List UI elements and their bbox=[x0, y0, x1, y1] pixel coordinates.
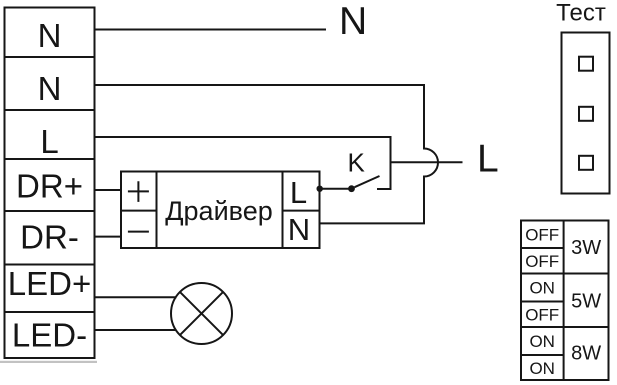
svg-text:Драйвер: Драйвер bbox=[165, 196, 272, 226]
svg-text:ON: ON bbox=[529, 279, 555, 298]
driver plus symbol bbox=[128, 181, 149, 202]
svg-text:8W: 8W bbox=[571, 343, 601, 365]
test connector box bbox=[562, 33, 610, 194]
driver minus symbol bbox=[128, 231, 149, 233]
terminal divider 4 bbox=[5, 210, 95, 212]
svg-text:L: L bbox=[477, 138, 499, 181]
svg-text:Тест: Тест bbox=[556, 0, 606, 27]
svg-text:OFF: OFF bbox=[525, 226, 559, 245]
svg-text:OFF: OFF bbox=[525, 306, 559, 325]
wire LED+ to lamp bbox=[95, 296, 177, 298]
wire DR- to driver minus bbox=[95, 236, 122, 238]
driver U1 box bbox=[121, 172, 320, 249]
power table sub divider 2 bbox=[521, 301, 564, 303]
lamp cross stroke 2 bbox=[180, 292, 223, 335]
power table column divider bbox=[563, 221, 565, 381]
svg-text:N: N bbox=[38, 70, 62, 107]
power table sub divider 3 bbox=[521, 354, 564, 356]
svg-text:DR-: DR- bbox=[20, 219, 79, 256]
svg-text:L: L bbox=[40, 123, 58, 160]
switch K blade bbox=[355, 176, 380, 187]
svg-text:ON: ON bbox=[529, 359, 555, 378]
grey edge artifact bbox=[0, 361, 97, 363]
terminal divider 3 bbox=[5, 158, 95, 160]
wire LED- to lamp bbox=[95, 329, 177, 331]
svg-text:N: N bbox=[339, 0, 367, 43]
svg-text:N: N bbox=[38, 17, 62, 54]
power table sub divider 1 bbox=[521, 247, 564, 249]
wire L to switch fixed contact bbox=[95, 137, 391, 189]
terminal divider 6 bbox=[5, 311, 95, 313]
terminal divider 2 bbox=[5, 109, 95, 111]
power table group divider 2 bbox=[521, 326, 609, 328]
driver L/N divider bbox=[283, 210, 320, 212]
svg-text:3W: 3W bbox=[571, 237, 601, 259]
svg-text:N: N bbox=[288, 212, 310, 247]
wire driver L to switch bbox=[320, 188, 352, 190]
svg-text:LED+: LED+ bbox=[8, 265, 91, 302]
node junction at driver L bbox=[317, 186, 323, 192]
svg-text:LED-: LED- bbox=[12, 317, 87, 354]
test pad 2 bbox=[579, 107, 593, 121]
svg-text:DR+: DR+ bbox=[16, 168, 83, 205]
node switch movable contact bbox=[348, 185, 355, 192]
lamp EL1 bbox=[171, 283, 232, 344]
wire N1 to mains N bbox=[95, 29, 327, 31]
test pad 1 bbox=[579, 57, 593, 71]
lamp cross stroke 1 bbox=[180, 292, 223, 335]
driver output column divider bbox=[282, 172, 284, 249]
terminal divider 1 bbox=[5, 56, 95, 58]
svg-text:OFF: OFF bbox=[525, 252, 559, 271]
test pad 3 bbox=[579, 156, 593, 170]
wire N2 to driver N (with hop over lamp wire) bbox=[95, 85, 439, 223]
driver input column divider bbox=[156, 172, 158, 249]
power table box bbox=[521, 221, 609, 381]
svg-text:ON: ON bbox=[529, 332, 555, 351]
wire switched line to lamp L bbox=[391, 161, 463, 163]
svg-text:K: K bbox=[348, 148, 366, 178]
driver plus/minus divider bbox=[121, 210, 157, 212]
terminal block X1 bbox=[5, 8, 95, 359]
wire DR+ to driver plus bbox=[95, 189, 122, 191]
svg-text:5W: 5W bbox=[571, 291, 601, 313]
power table group divider 1 bbox=[521, 273, 609, 275]
terminal divider 5 bbox=[5, 264, 95, 266]
svg-text:L: L bbox=[290, 175, 307, 210]
